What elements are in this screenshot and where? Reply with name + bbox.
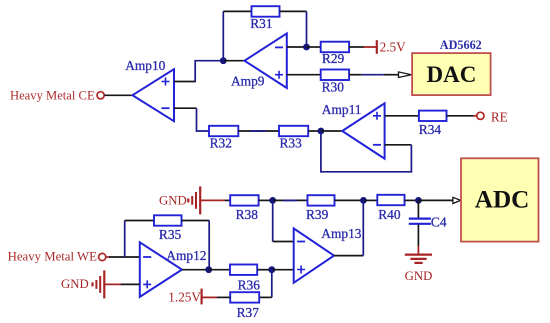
op-amp Amp10 [133, 69, 175, 121]
svg-text:R34: R34 [419, 122, 442, 137]
resistor R40 [377, 195, 404, 205]
svg-text:GND: GND [405, 269, 433, 283]
wire feedback up from node A [222, 11, 224, 60]
svg-text:GND: GND [61, 277, 89, 291]
block ADC [461, 158, 539, 241]
svg-text:R32: R32 [210, 136, 232, 151]
arrowhead into ADC [453, 197, 461, 203]
wire R35 right to feedback vertical [182, 220, 210, 222]
wire GND to R38 [200, 199, 224, 201]
node E junction dot [360, 197, 367, 204]
wire R35 feedback right vertical to node H [208, 221, 210, 270]
svg-text:1.25V: 1.25V [168, 290, 201, 305]
wire node B to R29 [307, 46, 321, 48]
svg-text:Amp9: Amp9 [231, 74, 265, 89]
svg-text:GND: GND [159, 194, 187, 208]
resistor R30 [321, 70, 349, 81]
resistor R35 [154, 215, 182, 225]
wire node G to Amp13 plus [272, 269, 294, 271]
wire node D down to Amp13 minus [272, 200, 274, 241]
svg-text:Amp10: Amp10 [125, 58, 165, 73]
svg-text:ADC: ADC [475, 186, 530, 213]
svg-text:AD5662: AD5662 [440, 38, 482, 52]
resistor R34 [419, 111, 447, 121]
wire jog down to R32 row [197, 108, 210, 131]
svg-text:R39: R39 [306, 207, 329, 222]
svg-text:RE: RE [491, 110, 508, 125]
wire Amp13 output to node E [334, 255, 363, 257]
wire CE terminal to Amp10 output [104, 94, 132, 96]
wire node G down to R37 [271, 270, 273, 298]
wire Amp9 minus to node B [287, 46, 307, 48]
ground symbol lower left (signal ground bars) [93, 270, 105, 298]
block DAC AD5662 [412, 53, 491, 95]
svg-text:R29: R29 [322, 51, 345, 66]
resistor R32 [209, 126, 238, 136]
op-amp Amp9 [245, 33, 287, 88]
port Heavy Metal WE terminal circle [99, 253, 106, 260]
svg-text:R33: R33 [280, 136, 303, 151]
wire node H to R36 [209, 269, 230, 271]
svg-text:DAC: DAC [427, 62, 477, 87]
resistor R29 [321, 42, 349, 53]
wire jog up to node A [195, 61, 223, 82]
wire node E to R40 [363, 199, 377, 201]
op-amp Amp13 [294, 228, 334, 282]
svg-text:2.5V: 2.5V [380, 39, 406, 54]
resistor R37 [230, 292, 259, 302]
node D junction dot [269, 197, 276, 204]
node A junction dot [220, 57, 227, 64]
wire R39 to node E [335, 199, 364, 201]
wire R38 to node D [259, 199, 273, 201]
wire R32 to R33 [238, 130, 279, 132]
op-amp Amp11 [342, 103, 384, 158]
ground symbol below C4 (earth) [405, 246, 432, 263]
svg-text:R30: R30 [322, 79, 345, 94]
wire GND to Amp12 plus [104, 283, 121, 285]
wire WE terminal to Amp12 minus [106, 256, 110, 258]
wire to R31 left [223, 10, 251, 12]
svg-text:R31: R31 [250, 16, 272, 31]
wire R37 to 1.25V [217, 296, 231, 298]
arrowhead into DAC [399, 72, 412, 78]
svg-text:Heavy Metal WE: Heavy Metal WE [8, 250, 97, 264]
wire Amp9 plus to R30 [287, 74, 321, 76]
wire node F to ADC [418, 199, 453, 201]
wire feedback down to node B [306, 11, 308, 47]
svg-text:Amp11: Amp11 [322, 102, 362, 117]
svg-text:R38: R38 [236, 207, 259, 222]
wire Amp12 output to node H [182, 269, 209, 271]
wire R40 to node F [405, 199, 419, 201]
svg-text:R40: R40 [378, 207, 401, 222]
power port 1.25V bar [201, 289, 203, 305]
op-amp Amp12 [140, 242, 182, 297]
ground symbol upper (signal ground bars) [188, 186, 200, 214]
wire node A to Amp9 output [223, 60, 244, 62]
resistor R39 [308, 195, 335, 205]
wire R36 to node G [257, 269, 272, 271]
resistor R36 [230, 265, 257, 275]
svg-text:R36: R36 [238, 277, 261, 292]
wire R34 to RE [447, 115, 474, 117]
resistor R33 [279, 126, 308, 136]
resistor R31 [252, 6, 280, 17]
wire Amp10 plus input stub [174, 81, 196, 83]
node C junction dot [318, 128, 325, 135]
svg-text:C4: C4 [431, 214, 447, 229]
wire Amp11 plus to R34 [385, 115, 419, 117]
wire to R35 left [125, 220, 154, 222]
svg-text:Amp12: Amp12 [166, 248, 206, 263]
resistor R38 [230, 195, 258, 205]
wire R31 right [280, 10, 307, 12]
wire R29 to 2.5V [349, 46, 364, 48]
port Heavy Metal CE terminal circle [97, 92, 104, 99]
node B junction dot [303, 44, 310, 51]
wire R33 to node C [308, 130, 321, 132]
wire Amp11 feedback loop [321, 131, 412, 172]
svg-text:Heavy Metal CE: Heavy Metal CE [10, 89, 95, 103]
port RE terminal circle [477, 112, 484, 119]
svg-text:Amp13: Amp13 [321, 226, 361, 241]
svg-text:R35: R35 [159, 227, 182, 242]
wire R35 feedback left vertical [124, 221, 126, 258]
node F junction dot [415, 197, 422, 204]
svg-text:R37: R37 [237, 305, 260, 320]
power port 2.5V bar [376, 40, 378, 54]
capacitor C4 [409, 200, 431, 246]
wire Amp11 minus stub [385, 144, 412, 146]
wire node D to R39 [273, 199, 308, 201]
wire R30 to DAC [349, 74, 362, 76]
wire Amp10 minus stub [174, 107, 197, 109]
node H junction dot [205, 266, 212, 273]
wire node C to Amp11 output [321, 130, 342, 132]
node G junction dot [268, 266, 275, 273]
